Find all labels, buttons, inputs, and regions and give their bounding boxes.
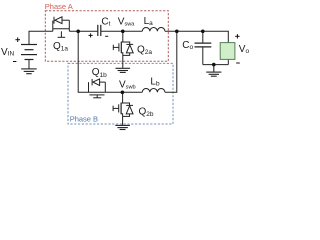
ground (battery)	[21, 69, 37, 74]
left post	[88, 82, 90, 92]
gate stem and T bar	[60, 31, 62, 37]
battery VIN plates	[21, 44, 37, 46]
svg-text:Phase A: Phase A	[45, 2, 73, 11]
capacitor Ct plates	[97, 25, 99, 36]
body diode cathode bar	[91, 79, 93, 86]
node Vswa junction dot	[121, 30, 125, 34]
wire: top rail Q1a to Ct	[69, 30, 98, 32]
transistor Q1a	[53, 17, 70, 38]
gate lead and T	[113, 46, 119, 48]
gate bar	[118, 43, 120, 51]
ground (output)	[206, 65, 221, 77]
battery minus sign	[13, 61, 16, 63]
battery plus sign	[15, 37, 20, 42]
load minus sign	[236, 62, 240, 64]
svg-text:Phase B: Phase B	[70, 114, 98, 123]
capacitor Co top lead	[202, 31, 204, 43]
ground (Q2b source)	[115, 125, 130, 129]
wire: top rail Ct to La	[101, 30, 143, 32]
junction dot Co top	[201, 30, 205, 34]
junction dot output ground	[212, 63, 216, 67]
channel bar	[89, 94, 104, 96]
inductor La	[142, 28, 165, 32]
node Vswb junction dot	[121, 91, 125, 95]
body diode loop	[123, 103, 130, 105]
transistor Q1b	[89, 79, 106, 98]
drain lead	[121, 92, 123, 103]
wire: battery top stub to rail	[29, 31, 53, 44]
wire: battery bottom stub	[28, 60, 30, 69]
channel bar	[53, 28, 70, 30]
ground (Q2a source)	[116, 68, 131, 72]
wire: Lb riser to top rail	[165, 31, 177, 92]
wire: Vswb node to Lb	[105, 91, 142, 93]
left post	[52, 21, 54, 32]
right post	[104, 82, 106, 92]
drain lead	[121, 31, 123, 42]
transistor Q2a	[113, 31, 133, 68]
body diode cathode bar	[53, 17, 55, 24]
Phase A dashed box	[45, 11, 168, 62]
wire: output bottom	[203, 64, 229, 66]
right post	[68, 20, 70, 31]
channel bar	[120, 103, 122, 115]
gate stem and T bar	[96, 95, 98, 98]
transistor Q2b	[113, 92, 133, 125]
inductor Lb	[142, 89, 165, 93]
channel bar	[120, 42, 122, 54]
junction dot Lb riser	[175, 30, 179, 34]
load plus sign	[235, 34, 239, 38]
diode top wire	[62, 19, 69, 21]
capacitor Co plates	[195, 42, 212, 44]
source lead	[121, 114, 123, 126]
gate bar	[118, 104, 120, 112]
body diode triangle	[93, 79, 100, 86]
gate lead and T	[113, 107, 119, 109]
load resistor Vo box	[220, 43, 235, 60]
wire: top rail La to load corner	[165, 31, 228, 42]
body diode triangle	[55, 17, 62, 24]
wire: load bottom lead	[227, 59, 229, 64]
diode top wire	[100, 81, 106, 83]
source lead	[121, 53, 123, 68]
wire: node A dropper to Q1b	[78, 31, 88, 92]
Ct plus sign	[89, 33, 93, 37]
Ct minus sign	[105, 35, 108, 37]
body diode loop	[123, 42, 130, 44]
wire through	[89, 91, 106, 93]
node A junction dot	[76, 30, 80, 34]
capacitor Co bottom lead	[202, 47, 204, 65]
Phase B dashed box	[68, 63, 173, 124]
